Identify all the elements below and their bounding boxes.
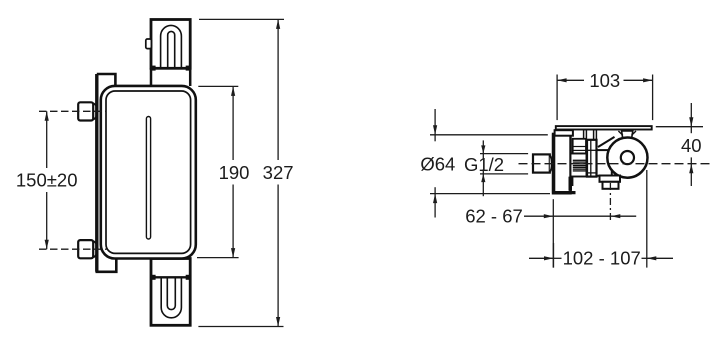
top connector flange line [151, 67, 190, 69]
centerline lower bolt [39, 248, 107, 250]
knob hub circle [621, 151, 634, 164]
top connector outer arch [161, 25, 182, 68]
body outer shell [101, 86, 196, 259]
bottom connector inner U [167, 277, 175, 309]
bracket thick left edge [552, 134, 555, 193]
knob circle [607, 138, 647, 178]
body bottom stubs [569, 177, 571, 191]
washer bump lower [89, 241, 98, 257]
dim 327 extension lines [198, 19, 284, 326]
dim 102-107 [529, 170, 673, 268]
stem flares [618, 131, 636, 135]
nipple cap [550, 155, 552, 171]
outlet upper [600, 176, 621, 182]
outlet centerline [609, 183, 611, 221]
dim 190 extension lines [197, 86, 239, 257]
washer bump upper [89, 104, 98, 120]
body slot [146, 117, 150, 240]
dim Ø64 [430, 109, 550, 218]
step under plate left [555, 130, 573, 136]
top connector lower walls [151, 68, 190, 86]
top connector inner arch [168, 31, 175, 68]
top fitting verticals [584, 130, 597, 148]
inner bracket line [572, 139, 574, 186]
svg-text:Ø64: Ø64 [420, 153, 455, 174]
top connector box [151, 20, 190, 69]
svg-text:327: 327 [263, 162, 294, 183]
rear body block behind knob [595, 150, 612, 176]
bolt lower [78, 240, 93, 258]
svg-text:150±20: 150±20 [16, 170, 78, 191]
svg-text:62 - 67: 62 - 67 [465, 206, 523, 227]
body inner shell [106, 91, 191, 253]
dim 103 [557, 75, 653, 121]
svg-text:190: 190 [219, 162, 250, 183]
centerline upper bolt [39, 110, 107, 112]
knob stem [622, 131, 633, 138]
G1/2 nipple square [533, 154, 550, 172]
bottom connector box [151, 259, 190, 326]
wall flange bracket [553, 134, 571, 193]
bottom connector outer U [161, 277, 181, 317]
top connector tab [146, 39, 152, 49]
thread hatch [573, 160, 586, 171]
chamfer to knob [598, 137, 615, 147]
dim 150±20 line [46, 111, 48, 249]
bolt upper [78, 102, 93, 120]
dim 62-67 [524, 199, 636, 267]
bracket bottom thick edge [552, 191, 575, 194]
cartridge cap block [573, 139, 586, 154]
dim G1/2 [480, 140, 528, 196]
bottom connector flange line [151, 276, 190, 278]
svg-text:40: 40 [681, 135, 702, 156]
dim 40 [656, 103, 703, 186]
outlet lower [603, 182, 619, 189]
svg-text:102 - 107: 102 - 107 [563, 248, 641, 269]
wall bracket (back plate) [97, 74, 117, 272]
main centerline [519, 163, 712, 165]
svg-text:103: 103 [589, 70, 620, 91]
valve body block [587, 140, 597, 177]
svg-text:G1/2: G1/2 [464, 154, 504, 175]
inlet elbow block [571, 154, 587, 177]
escutcheon plate edge [556, 126, 652, 129]
